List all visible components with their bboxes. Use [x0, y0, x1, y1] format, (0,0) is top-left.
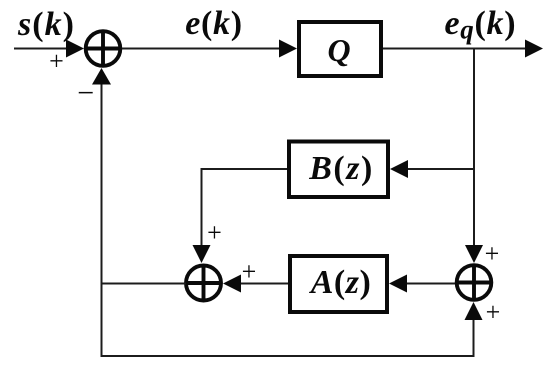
wire S1 to Q with arrowhead	[122, 40, 297, 58]
summer S2 (left adder)	[186, 266, 221, 301]
summer S1 (input subtractor)	[86, 31, 121, 66]
svg-text:Q: Q	[327, 32, 350, 68]
wire bottom feedback rail	[101, 355, 475, 357]
block B(z)	[289, 142, 388, 198]
svg-text:−: −	[77, 77, 94, 110]
wire S2 output to left feedback rail	[101, 283, 187, 285]
svg-text:+: +	[49, 47, 64, 76]
wire Q to output with arrowhead	[383, 40, 543, 58]
block Q (quantizer)	[299, 22, 381, 76]
wire B(z) output to summer S2 top, arrowhead down	[193, 169, 288, 263]
wire tap to B(z) input with arrowhead left	[390, 160, 473, 178]
wire branch down from output to summer S3 top, arrowhead down	[465, 49, 483, 264]
svg-text:+: +	[486, 298, 501, 327]
svg-text:e(k): e(k)	[185, 5, 243, 42]
summer S3 (right adder)	[457, 265, 492, 300]
wire summer S3 output to A(z) with arrowhead left	[389, 275, 455, 293]
wire right rail up into S3 bottom with arrowhead up	[465, 302, 483, 357]
svg-text:B(z): B(z)	[308, 150, 374, 187]
wire input s(k) with arrowhead into summer S1	[14, 40, 84, 58]
svg-text:A(z): A(z)	[309, 264, 372, 301]
block A(z)	[290, 256, 387, 312]
wire A(z) output to summer S2 with arrowhead left	[223, 275, 288, 293]
wire left feedback rail up to S1 with arrowhead up	[92, 68, 111, 356]
svg-text:+: +	[207, 218, 222, 247]
svg-text:+: +	[242, 257, 257, 286]
svg-text:s(k): s(k)	[17, 6, 75, 43]
svg-text:eq(k): eq(k)	[445, 5, 517, 45]
svg-text:+: +	[485, 239, 500, 268]
